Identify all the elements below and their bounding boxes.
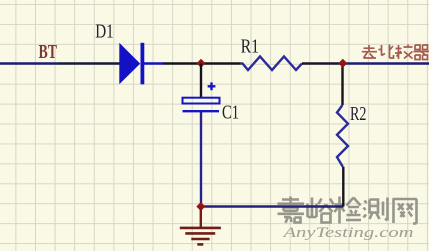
svg-text:D1: D1 — [95, 20, 114, 42]
watermark 检 — [335, 197, 362, 224]
svg-text:C1: C1 — [222, 102, 239, 124]
wire R1 to node B — [302, 62, 343, 64]
wire C1 to ground node — [200, 111, 202, 206]
wire node B down to R2 — [341, 64, 343, 106]
wire diode cathode to node A — [163, 62, 241, 64]
wire BT segment left — [0, 62, 58, 64]
junction ground node — [196, 202, 205, 211]
ground symbol — [180, 207, 221, 245]
junction node B — [338, 59, 347, 68]
wire node B to output — [343, 62, 429, 64]
wire to diode anode — [58, 62, 120, 64]
svg-text:AnyTesting.com: AnyTesting.com — [282, 224, 413, 241]
watermark 峪 — [308, 198, 334, 223]
wire node A down to C1 — [200, 64, 202, 98]
svg-text:R2: R2 — [350, 103, 367, 125]
resistor R1 — [241, 56, 302, 70]
net label 去比较器 (to comparator) — [362, 45, 429, 60]
wire bottom from ground node to R2 — [201, 205, 344, 207]
wire R2 to bottom wire — [342, 167, 344, 207]
capacitor C1 — [183, 82, 220, 111]
resistor R2 — [337, 105, 348, 167]
diode D1 — [119, 43, 163, 85]
junction node A — [197, 59, 206, 68]
svg-text:BT: BT — [39, 41, 58, 63]
watermark 测 — [364, 198, 388, 221]
svg-text:R1: R1 — [241, 35, 260, 57]
watermark 网 — [393, 199, 418, 224]
watermark 嘉 — [278, 197, 305, 223]
